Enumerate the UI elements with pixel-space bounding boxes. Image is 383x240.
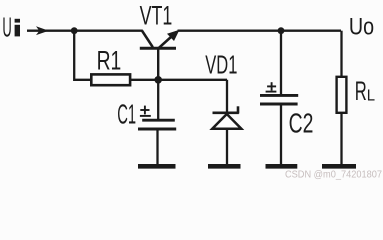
- input arrowhead: [36, 26, 49, 35]
- wire output corner down to RL: [340, 31, 342, 76]
- ground C2: [266, 164, 298, 169]
- ground C1: [138, 164, 176, 169]
- wire C1 to ground: [156, 129, 158, 165]
- resistor R1: [91, 74, 130, 85]
- wire node C to C2: [280, 31, 282, 96]
- ground VD1: [208, 164, 241, 169]
- wire base node to C1: [157, 80, 159, 119]
- capacitor C2 polarity plus: [266, 82, 277, 91]
- svg-text:R: R: [355, 76, 367, 106]
- svg-text:R1: R1: [97, 46, 122, 76]
- wire left drop: [74, 31, 90, 80]
- capacitor C1 polarity plus: [140, 106, 151, 116]
- wire base node to VD1: [226, 80, 228, 113]
- wire C2 to ground: [280, 104, 282, 165]
- capacitor C1: [138, 120, 176, 129]
- node Ui label: [2, 12, 20, 43]
- node C junction dot: [278, 27, 285, 34]
- svg-text:C1: C1: [117, 99, 136, 130]
- svg-text:C2: C2: [289, 108, 314, 139]
- wire VD1 to ground: [226, 129, 228, 165]
- zener diode VD1: [212, 106, 241, 128]
- wire RL to ground: [340, 113, 342, 165]
- capacitor C2: [260, 95, 298, 104]
- svg-text:L: L: [367, 88, 375, 105]
- wire R1 to base node: [131, 79, 227, 81]
- resistor RL: [337, 77, 347, 113]
- svg-text:U: U: [2, 12, 11, 43]
- svg-text:CSDN @m0_74201807: CSDN @m0_74201807: [285, 168, 382, 180]
- wire input arrow line: [27, 30, 143, 32]
- svg-text:VD1: VD1: [205, 50, 237, 80]
- resistor RL label: [355, 76, 375, 106]
- wire emitter to output: [178, 30, 342, 32]
- transistor VT1: [140, 31, 177, 80]
- svg-text:VT1: VT1: [140, 0, 173, 30]
- ground RL: [322, 164, 356, 169]
- node B junction dot: [154, 76, 162, 84]
- node A junction dot: [71, 27, 78, 34]
- svg-text:Uo: Uo: [349, 13, 374, 40]
- transistor VT1 emitter arrowhead: [167, 30, 180, 41]
